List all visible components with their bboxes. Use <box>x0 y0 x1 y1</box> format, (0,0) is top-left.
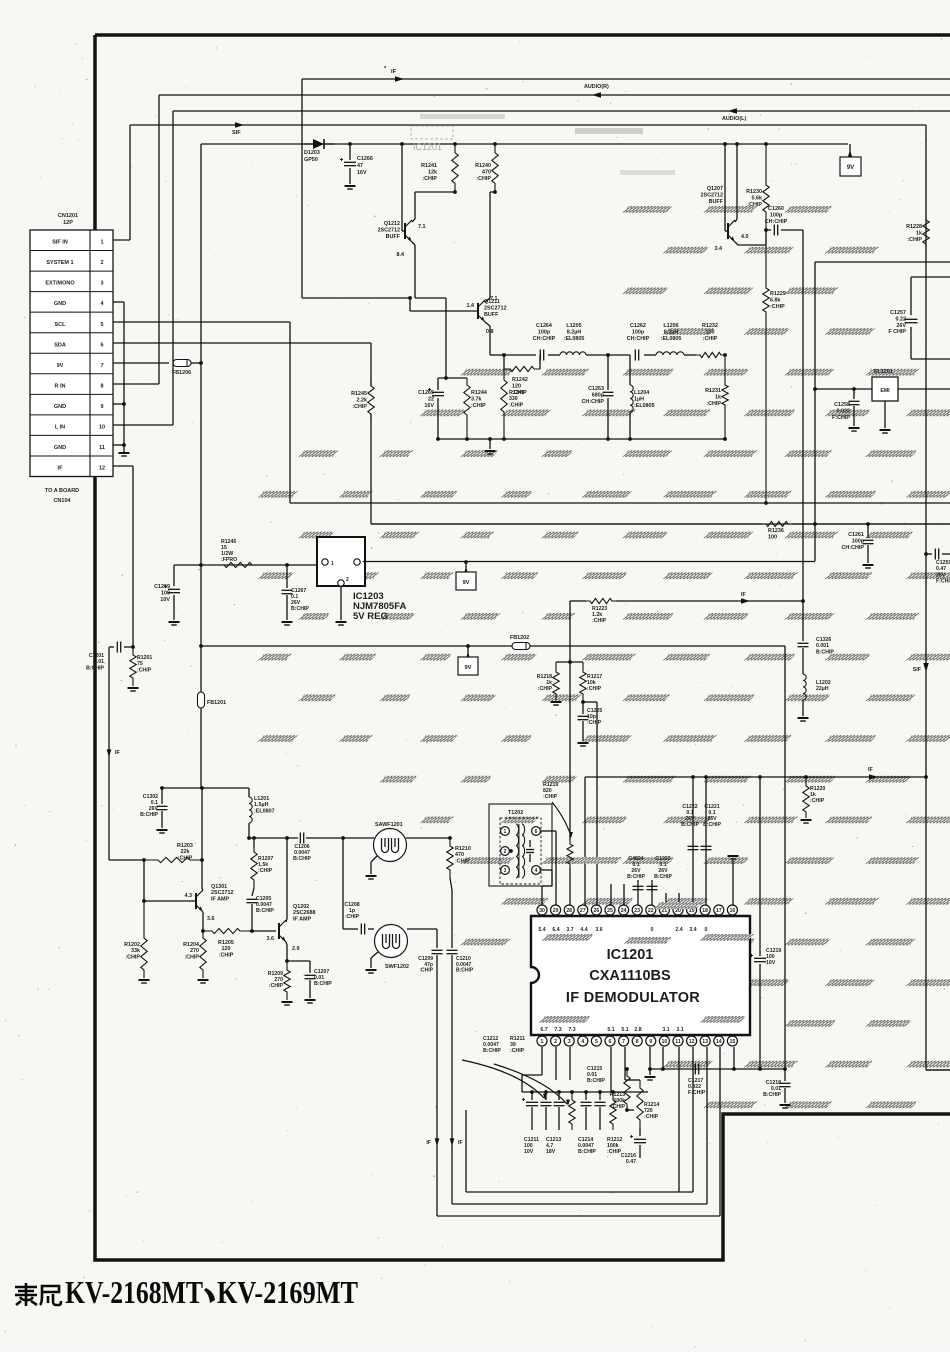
svg-text:3.7: 3.7 <box>566 927 573 933</box>
diode D1203 <box>304 143 313 145</box>
svg-text:IF: IF <box>115 750 120 756</box>
svg-text::CHIP: :CHIP <box>587 720 602 726</box>
svg-text:CH:CHIP: CH:CHIP <box>627 336 650 342</box>
svg-text:12P: 12P <box>63 220 73 226</box>
svg-text:330: 330 <box>509 396 518 402</box>
ground (IC1203) <box>336 621 347 623</box>
svg-text:11: 11 <box>99 445 105 451</box>
power 9V (top) <box>849 144 851 157</box>
svg-text:R1232: R1232 <box>702 323 718 329</box>
svg-text:B:CHIP: B:CHIP <box>627 874 645 880</box>
wire filter input <box>490 354 504 356</box>
svg-text:IF AMP: IF AMP <box>211 896 229 902</box>
resistor R1209 <box>284 961 290 1000</box>
svg-text:CH:CHIP: CH:CHIP <box>765 219 788 225</box>
wire 5V output line <box>363 561 815 563</box>
svg-text:R1229: R1229 <box>770 291 786 297</box>
svg-text:F:CHIP: F:CHIP <box>688 1090 706 1096</box>
svg-text:2.4: 2.4 <box>675 927 682 933</box>
wire filter line <box>504 354 536 356</box>
svg-text:5.4: 5.4 <box>538 927 545 933</box>
svg-text:16V: 16V <box>424 403 434 409</box>
svg-text:18V: 18V <box>546 1149 556 1155</box>
svg-text:0.022: 0.022 <box>837 408 851 414</box>
ground (R1209) <box>282 1001 293 1003</box>
svg-text::CHIP: :CHIP <box>770 304 785 310</box>
node IF arrows down <box>435 1138 440 1146</box>
svg-text:Q1212: Q1212 <box>384 221 400 227</box>
svg-text::CHIP: :CHIP <box>352 404 367 410</box>
frame corner of adjacent section <box>926 1069 950 1071</box>
wire IF drop left <box>108 647 110 860</box>
wire EMI line <box>815 388 872 390</box>
svg-text:3.4: 3.4 <box>689 927 696 933</box>
svg-text:IF: IF <box>458 1140 463 1146</box>
svg-text:3.6: 3.6 <box>267 936 275 942</box>
resistor R1201 <box>130 647 136 686</box>
resistor R1202 <box>141 901 147 978</box>
ground (R1204) <box>198 979 209 981</box>
svg-text:6: 6 <box>609 1039 612 1045</box>
svg-text:R1231: R1231 <box>705 388 721 394</box>
svg-text:F:CHIP: F:CHIP <box>936 579 950 585</box>
svg-text:9V: 9V <box>462 580 469 586</box>
svg-text:B:CHIP: B:CHIP <box>763 1092 781 1098</box>
hatch texture marks (scan artifacts) <box>622 206 672 213</box>
wire L1201 bottom <box>248 823 250 838</box>
ferrite bead FB1206 <box>173 360 191 367</box>
svg-text:B:CHIP: B:CHIP <box>587 1078 605 1084</box>
svg-text:0.001: 0.001 <box>816 643 829 649</box>
node IF arrow top <box>395 76 404 82</box>
node AUDIO(R) arrow <box>592 92 601 98</box>
svg-text::CHIP: :CHIP <box>269 983 284 989</box>
svg-text::CHIP: :CHIP <box>258 868 273 874</box>
wire EMI ground stub <box>884 401 886 428</box>
svg-text:47: 47 <box>357 163 363 169</box>
svg-text::CHIP: :CHIP <box>219 952 234 958</box>
caption CJK glyphs <box>15 1283 61 1306</box>
wire Q1211 collector <box>485 298 490 302</box>
svg-text:B:CHIP: B:CHIP <box>703 822 721 828</box>
svg-text:8: 8 <box>636 1039 639 1045</box>
wire T1202 wiring <box>541 830 556 832</box>
svg-text::CHIP: :CHIP <box>607 1149 622 1155</box>
wire 646 rail <box>201 645 785 647</box>
wire pin28 feed <box>569 868 571 905</box>
svg-text:B:CHIP: B:CHIP <box>140 812 158 818</box>
svg-text:SAWF1201: SAWF1201 <box>375 822 403 828</box>
capacitor C1326 <box>798 642 809 644</box>
svg-text:GND: GND <box>54 404 66 410</box>
svg-text:14: 14 <box>716 1039 722 1045</box>
ground (C1225) <box>578 742 589 744</box>
wire C1210 drop <box>450 878 452 890</box>
svg-text:IC1201: IC1201 <box>413 142 442 152</box>
svg-text:470: 470 <box>482 169 491 175</box>
resistor R1212 <box>610 1092 616 1130</box>
capacitor C1208 <box>360 924 362 935</box>
wire pin27 feed <box>584 904 586 906</box>
ground (pin17 bar) <box>732 860 734 905</box>
svg-text:L1206: L1206 <box>663 323 678 329</box>
svg-text:C1264: C1264 <box>536 323 552 329</box>
svg-text:2.8: 2.8 <box>634 1027 641 1033</box>
ground (R1201) <box>128 687 139 689</box>
svg-text:30: 30 <box>539 908 545 914</box>
ground (C1218) <box>780 1104 791 1106</box>
wire Q1207 base <box>724 144 726 231</box>
capacitor C1269 <box>173 565 175 586</box>
svg-text:2: 2 <box>554 1039 557 1045</box>
svg-text:SIF: SIF <box>913 667 922 673</box>
svg-text:R1242: R1242 <box>512 377 528 383</box>
svg-text:3.7k: 3.7k <box>471 396 482 402</box>
svg-text:L1202: L1202 <box>816 680 831 686</box>
capacitor C4824 <box>637 884 639 905</box>
svg-text:7.3: 7.3 <box>554 1027 561 1033</box>
wire AUDIO(R) bus <box>159 94 950 96</box>
power 9V (mid1) <box>464 560 468 564</box>
svg-text:22: 22 <box>428 396 434 402</box>
wire SWF1202 gnd stub <box>371 952 378 958</box>
svg-text:CN104: CN104 <box>53 498 71 504</box>
resistor R1244 <box>464 378 470 439</box>
transistor Q1207 <box>727 223 729 239</box>
svg-text::CHIP: :CHIP <box>184 954 199 960</box>
capacitor C1207 <box>287 960 310 962</box>
transformer T1202 coils <box>516 824 519 878</box>
capacitor C1259 <box>924 552 928 556</box>
svg-text:5: 5 <box>100 322 103 328</box>
svg-text::CHIP: :CHIP <box>706 401 721 407</box>
wire loop pin12 <box>692 1047 694 1192</box>
svg-text:25: 25 <box>607 908 613 914</box>
svg-text:5.1: 5.1 <box>621 1027 628 1033</box>
svg-text:L1201: L1201 <box>254 796 269 802</box>
svg-text::CHIP: :CHIP <box>476 176 491 182</box>
inductor L1204 <box>629 355 631 385</box>
svg-text:2SC2712: 2SC2712 <box>484 305 506 311</box>
capacitor C1260 <box>766 229 771 231</box>
svg-text:18: 18 <box>702 908 708 914</box>
wire base line Q1202 <box>249 930 276 932</box>
resistor R1203 <box>109 859 144 861</box>
ground (SWF1202) <box>366 969 377 971</box>
svg-text:IF: IF <box>58 466 64 472</box>
wire 9V vertical <box>200 144 202 646</box>
resistor R1218 <box>553 662 559 700</box>
svg-text:Q1207: Q1207 <box>707 186 723 192</box>
svg-text:C1263: C1263 <box>588 386 604 392</box>
svg-text::CHIP: :CHIP <box>471 403 486 409</box>
wire pin11 gnd <box>113 444 124 446</box>
svg-text:26V: 26V <box>936 572 946 578</box>
svg-text:680p: 680p <box>592 392 605 398</box>
wire SDA bus <box>113 342 371 344</box>
resistor R1213 <box>624 1069 630 1110</box>
svg-text:16: 16 <box>730 908 736 914</box>
svg-text:BUFF: BUFF <box>709 199 724 205</box>
svg-text:IF DEMODULATOR: IF DEMODULATOR <box>566 990 700 1006</box>
wire Q1202 emitter <box>286 942 287 945</box>
svg-text::CHIP: :CHIP <box>747 202 762 208</box>
svg-text::CHIP: :CHIP <box>703 336 718 342</box>
svg-text::CHIP: :CHIP <box>810 798 825 804</box>
capacitor C1263 <box>607 355 609 390</box>
svg-text:GP50: GP50 <box>304 157 318 163</box>
scan smudge artifacts <box>420 114 505 119</box>
svg-text:7: 7 <box>100 363 103 369</box>
wire Q1202 collector <box>286 919 287 922</box>
svg-text:1k: 1k <box>916 230 922 236</box>
svg-text::CHIP: :CHIP <box>592 618 607 624</box>
svg-text:8.2µH: 8.2µH <box>664 329 679 335</box>
svg-text:6.4: 6.4 <box>552 927 559 933</box>
svg-text:9: 9 <box>100 404 103 410</box>
wire Q1211 base drop <box>409 303 411 311</box>
svg-text:C1201: C1201 <box>89 653 104 659</box>
svg-text:0.01: 0.01 <box>94 659 104 665</box>
svg-text:9V: 9V <box>57 363 64 369</box>
svg-text:CN1201: CN1201 <box>58 213 78 219</box>
resistor R1207 <box>253 838 255 848</box>
svg-text:B:CHIP: B:CHIP <box>483 1048 501 1054</box>
svg-text:R1205: R1205 <box>218 940 234 946</box>
svg-text:24: 24 <box>621 908 627 914</box>
svg-text:100p: 100p <box>538 329 551 335</box>
svg-text:SCL: SCL <box>55 322 67 328</box>
svg-text:C1326: C1326 <box>816 637 831 643</box>
resistor R1210 <box>447 838 453 878</box>
svg-text:28: 28 <box>566 908 572 914</box>
svg-text:R1240: R1240 <box>475 163 491 169</box>
svg-text:5: 5 <box>595 1039 598 1045</box>
wire loop pin13 <box>706 1047 708 1204</box>
wire pin9 gnd drop <box>649 1047 651 1069</box>
capacitor C1265 <box>437 378 439 390</box>
svg-text:27: 27 <box>580 908 586 914</box>
svg-text:22: 22 <box>648 908 654 914</box>
svg-text:IC1201: IC1201 <box>607 947 654 963</box>
svg-text:GND: GND <box>54 301 66 307</box>
svg-text:B:CHIP: B:CHIP <box>293 856 311 862</box>
svg-text:C1258: C1258 <box>834 402 850 408</box>
svg-text::CHIP: :CHIP <box>455 858 470 864</box>
transistor Q1301 <box>195 893 197 909</box>
svg-text:1.4: 1.4 <box>467 303 475 309</box>
svg-text:100: 100 <box>161 590 170 596</box>
svg-text:CH:CHIP: CH:CHIP <box>582 399 605 405</box>
svg-text:3.6: 3.6 <box>207 916 215 922</box>
svg-text:100: 100 <box>768 534 777 540</box>
wire pin9 gnd <box>113 403 124 405</box>
svg-text:9V: 9V <box>464 665 471 671</box>
svg-text:10V: 10V <box>160 597 170 603</box>
resistor R1217 <box>580 662 586 702</box>
svg-text:D1203: D1203 <box>304 150 320 156</box>
wire pin7 drop <box>624 1047 626 1080</box>
inductor L1202 <box>803 674 806 700</box>
svg-text:22µH: 22µH <box>816 686 829 692</box>
wire SWF1202 out <box>407 928 437 930</box>
svg-text:270: 270 <box>190 948 199 954</box>
capacitor C1262 <box>634 350 636 361</box>
svg-text:TO A BOARD: TO A BOARD <box>45 488 79 494</box>
wire x785 node <box>783 1067 787 1071</box>
wire filter ground rail <box>438 438 725 440</box>
resistor R1249 <box>501 369 507 439</box>
svg-text:2: 2 <box>100 260 103 266</box>
capacitor C1217 <box>694 1064 696 1075</box>
svg-text:B:CHIP: B:CHIP <box>681 822 699 828</box>
svg-text:B:CHIP: B:CHIP <box>654 874 672 880</box>
svg-text:F:CHIP: F:CHIP <box>832 415 850 421</box>
svg-text:2SC2712: 2SC2712 <box>701 192 723 198</box>
capacitor C1267 <box>285 563 289 567</box>
svg-text:2.9: 2.9 <box>292 946 300 952</box>
wire pin30 feed <box>541 886 543 905</box>
wire pin8 RIN <box>113 383 159 385</box>
svg-text::CHIP: :CHIP <box>587 686 602 692</box>
capacitor C1221 <box>701 845 712 847</box>
svg-text:GND: GND <box>54 445 66 451</box>
svg-text:23: 23 <box>634 908 640 914</box>
svg-text:SDA: SDA <box>54 342 66 348</box>
svg-text:2.2k: 2.2k <box>357 397 368 403</box>
svg-text:4.0: 4.0 <box>741 234 749 240</box>
wire pin25 feed <box>610 884 612 905</box>
svg-text:0.47: 0.47 <box>936 566 946 572</box>
svg-text:19: 19 <box>689 908 695 914</box>
curved arrow 1 <box>462 1060 544 1098</box>
svg-text:Q1202: Q1202 <box>293 904 309 910</box>
wire IF 777 line <box>585 776 926 778</box>
svg-text:B:CHIP: B:CHIP <box>456 968 474 974</box>
wire pin2 drop <box>555 1047 557 1080</box>
ground (EL1201) <box>880 429 891 431</box>
transistor Q1212 <box>404 223 406 239</box>
resistor R1231 <box>722 355 728 439</box>
svg-text:7.1: 7.1 <box>490 296 498 302</box>
svg-text:IF AMP: IF AMP <box>293 916 311 922</box>
svg-text:120: 120 <box>222 946 231 952</box>
svg-text:13: 13 <box>702 1039 708 1045</box>
svg-text:1µH: 1µH <box>634 396 644 402</box>
ground (CN1201 gnd bus) <box>123 450 125 452</box>
svg-text:C1259: C1259 <box>936 560 950 566</box>
capacitor C1264 <box>539 350 541 361</box>
svg-text:120: 120 <box>706 329 715 335</box>
svg-text::CHIP: :CHIP <box>512 390 527 396</box>
svg-text:3.4: 3.4 <box>715 246 723 252</box>
capacitor C1216 <box>639 1128 641 1136</box>
transformer T1202 pins <box>501 827 510 836</box>
svg-text:9: 9 <box>649 1039 652 1045</box>
svg-text:10: 10 <box>662 1039 668 1045</box>
svg-text:R1204: R1204 <box>183 942 199 948</box>
svg-text:1: 1 <box>100 240 103 246</box>
svg-text:2SC2688: 2SC2688 <box>293 910 315 916</box>
wire Q1212 emitter <box>412 242 415 245</box>
wire 838 line <box>249 837 298 839</box>
capacitor C1210 <box>447 949 458 951</box>
svg-text:IF: IF <box>426 1140 431 1146</box>
svg-text::FPRO: :FPRO <box>221 557 237 563</box>
resistor R1204 <box>200 931 206 978</box>
capacitor C1201 <box>109 646 114 648</box>
resistor R1205 <box>203 928 249 933</box>
svg-text::CHIP: :CHIP <box>611 1104 626 1110</box>
svg-text:B:CHIP: B:CHIP <box>816 649 834 655</box>
resistor R1240 <box>492 144 498 192</box>
svg-text:5V REG: 5V REG <box>353 611 388 622</box>
svg-text:10: 10 <box>99 424 105 430</box>
wire Q1212 base <box>401 144 403 231</box>
capacitor C1302 <box>161 788 163 804</box>
svg-text:EL1201: EL1201 <box>874 369 893 375</box>
resistor R1242 <box>504 366 540 371</box>
wire emitter branch <box>415 297 446 299</box>
wire C1208 line <box>342 838 344 929</box>
capacitor C1209 <box>432 949 443 951</box>
capacitor C1213 <box>545 1092 547 1100</box>
capacitor C1225 <box>582 702 584 714</box>
svg-text:C1265: C1265 <box>418 390 434 396</box>
svg-text:100p: 100p <box>632 329 645 335</box>
ground (C1258) <box>849 427 860 429</box>
svg-text:1.5µH: 1.5µH <box>254 802 269 808</box>
svg-text:15: 15 <box>730 1039 736 1045</box>
svg-text:100p: 100p <box>770 212 783 218</box>
transformer T1202 dashed box <box>500 818 541 884</box>
resistor R1232 <box>696 352 725 357</box>
inductor L1206 <box>656 352 684 355</box>
svg-text:0.22: 0.22 <box>896 316 907 322</box>
ground (C1302) <box>157 829 168 831</box>
resistor R1241 <box>452 144 458 192</box>
svg-text:B:CHIP: B:CHIP <box>256 908 274 914</box>
wire Q1212 collector <box>412 219 415 222</box>
svg-text:B:CHIP: B:CHIP <box>314 981 332 987</box>
svg-text:B:CHIP: B:CHIP <box>578 1149 596 1155</box>
capacitor C1219 <box>754 957 766 959</box>
svg-text:C1257: C1257 <box>890 310 906 316</box>
IC IC1201 body <box>531 916 750 1035</box>
svg-text:2: 2 <box>504 849 507 855</box>
svg-text:FB1201: FB1201 <box>207 700 226 706</box>
wire L1201 top <box>248 788 250 797</box>
svg-text::CHIP: :CHIP <box>538 686 553 692</box>
svg-text:L1204: L1204 <box>634 390 649 396</box>
resistor R1246 <box>218 562 258 567</box>
ground (L1202) <box>798 717 809 719</box>
capacitor C1205 <box>252 888 254 896</box>
wire Q1211 emitter <box>485 322 490 326</box>
capacitor C1215 <box>599 1092 601 1100</box>
wire pin10 LIN <box>113 424 173 426</box>
wire 662 bar <box>556 661 583 663</box>
wire SIF vertical <box>925 125 927 1070</box>
wire Q1301 base <box>143 860 145 901</box>
node SIF arrow <box>235 122 244 128</box>
wire V2 vertical <box>814 262 816 561</box>
svg-text:R1203: R1203 <box>177 843 193 849</box>
wire C1257 loop <box>911 276 950 278</box>
hatch marks over IC1201 <box>542 934 594 941</box>
svg-text:R1210: R1210 <box>455 846 471 852</box>
svg-text:3: 3 <box>568 1039 571 1045</box>
